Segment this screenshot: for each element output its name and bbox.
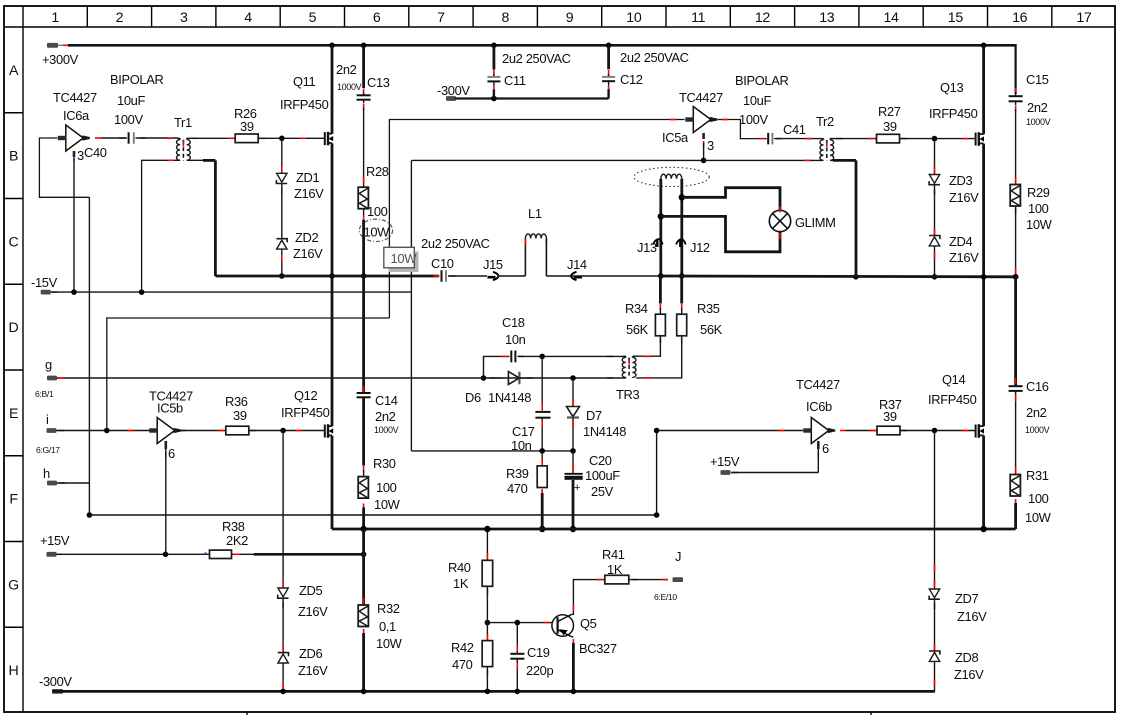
op-amp IC6a TC4427 labels xyxy=(53,90,97,123)
node R42/-300V rail xyxy=(485,689,491,695)
svg-text:-300V: -300V xyxy=(39,674,72,689)
svg-text:6:B/1: 6:B/1 xyxy=(35,389,54,399)
svg-text:10uF: 10uF xyxy=(743,93,771,108)
capacitor C20 100uF 25V xyxy=(565,451,583,529)
svg-text:ZD2: ZD2 xyxy=(295,230,318,245)
node Q14/529 bus xyxy=(980,526,986,532)
wire +15V line to R38 xyxy=(57,553,254,555)
node D7/C20 xyxy=(570,448,576,454)
diode D6 1N4148 xyxy=(489,372,533,385)
node -15V/IC6a pin3 xyxy=(71,289,77,295)
svg-text:IC5a: IC5a xyxy=(662,130,689,145)
node J13/GLIMM bottom xyxy=(658,213,664,219)
wire h-net vertical to IC6a/IC6b xyxy=(88,197,90,515)
zener diode ZD1 labels xyxy=(294,170,324,201)
svg-text:Q5: Q5 xyxy=(580,616,597,631)
svg-text:-300V: -300V xyxy=(437,83,470,98)
wire Q14 source to 529 bus xyxy=(982,436,985,529)
sense inductor xyxy=(661,174,682,179)
net i stub xyxy=(36,412,64,455)
node R29/276 bus xyxy=(1013,274,1019,280)
transistor Q14 labels xyxy=(928,372,977,407)
wire g line xyxy=(56,377,625,379)
resistor R28 100 10W xyxy=(358,187,368,209)
node ZD4/276 bus xyxy=(932,274,938,280)
capacitor C17 xyxy=(535,356,550,451)
resistor R39 labels xyxy=(506,466,529,496)
svg-text:Z16V: Z16V xyxy=(957,609,987,624)
svg-text:2: 2 xyxy=(116,10,124,26)
resistor R38 2K2 xyxy=(206,550,240,558)
resistor R30 100 10W xyxy=(358,477,368,499)
capacitor C17 labels xyxy=(511,424,535,453)
svg-text:100V: 100V xyxy=(114,112,143,127)
svg-text:3: 3 xyxy=(180,10,188,26)
node IC5a pin3 / -15V line xyxy=(701,158,707,164)
svg-text:h: h xyxy=(43,466,50,481)
transistor Q12 IRFP450 xyxy=(325,424,333,438)
svg-text:C12: C12 xyxy=(620,72,643,87)
wire C15 to R29 xyxy=(1015,109,1017,185)
transformer Tr2 label xyxy=(816,114,834,129)
wire GLIMM bottom branch xyxy=(661,216,780,251)
svg-text:6: 6 xyxy=(822,441,829,456)
net -300V stub (top) xyxy=(437,83,470,101)
wire Tr1 right winding bottom to bus xyxy=(187,160,216,276)
resistor R30 labels xyxy=(373,456,401,512)
resistor R27 labels xyxy=(878,104,901,134)
transistor Q5 labels xyxy=(579,616,617,656)
svg-text:10W: 10W xyxy=(1026,217,1053,232)
resistor R35 56K xyxy=(636,276,687,378)
wire C13 to R28 xyxy=(363,108,365,188)
net g stub xyxy=(35,357,57,399)
svg-text:470: 470 xyxy=(507,481,528,496)
wire TR3 top-left lead xyxy=(542,355,625,357)
wire C14 to R30 xyxy=(362,397,365,476)
resistor R31 labels xyxy=(1025,468,1052,525)
svg-text:4: 4 xyxy=(244,10,252,26)
transformer TR3 label xyxy=(616,387,639,402)
resistor R38 labels xyxy=(222,519,248,548)
svg-text:Z16V: Z16V xyxy=(949,190,979,205)
resistor R34 labels xyxy=(625,301,649,337)
lamp GLIMM xyxy=(769,207,790,240)
node C18/TR3 line xyxy=(539,354,545,360)
resistor R40 1K xyxy=(482,529,493,595)
node D6/D7 junction xyxy=(570,375,576,381)
svg-text:C17: C17 xyxy=(512,424,535,439)
wire 276 bus to C16 xyxy=(1014,277,1017,386)
svg-text:F: F xyxy=(9,492,18,508)
node -300V/C11 bottom xyxy=(491,96,497,102)
svg-text:ZD6: ZD6 xyxy=(299,646,322,661)
capacitor C14 xyxy=(357,393,371,397)
node C20/529 bus xyxy=(570,526,576,532)
node R27/ZD3 xyxy=(932,136,938,142)
svg-text:BC327: BC327 xyxy=(579,641,617,656)
svg-text:39: 39 xyxy=(240,119,254,134)
node J12/276 bus xyxy=(679,273,685,279)
wire 276 bus to C14 xyxy=(362,276,365,392)
svg-text:i: i xyxy=(46,412,49,427)
svg-text:C41: C41 xyxy=(783,122,806,137)
node +15V/IC5b pin6 xyxy=(163,552,169,558)
resistor R36 xyxy=(176,426,325,435)
zener diode ZD6 Z16V xyxy=(278,599,289,692)
wire +15V thick segment R38 to R30 bus xyxy=(254,553,364,556)
capacitor C18 xyxy=(484,351,543,379)
svg-text:A: A xyxy=(9,63,19,79)
node +300V/C11 xyxy=(491,43,497,49)
svg-text:J15: J15 xyxy=(483,257,503,272)
svg-text:g: g xyxy=(45,357,52,372)
capacitor C40 labels xyxy=(84,72,163,160)
resistor R41 1K xyxy=(597,575,668,584)
svg-text:100uF: 100uF xyxy=(585,468,620,483)
resistor R26 xyxy=(190,134,325,143)
wire -300V bottom rail xyxy=(52,690,935,693)
svg-text:C15: C15 xyxy=(1026,72,1049,87)
net +15V power stub (left) xyxy=(40,533,70,557)
svg-text:J12: J12 xyxy=(690,240,710,255)
svg-text:IRFP450: IRFP450 xyxy=(929,106,978,121)
label J13 with arrow xyxy=(637,239,663,255)
capacitor C41 labels xyxy=(735,73,806,137)
svg-text:1000V: 1000V xyxy=(374,425,399,435)
zener diode ZD4 Z16V xyxy=(929,185,940,277)
wire Q5 collector xyxy=(572,580,605,615)
wire i line xyxy=(57,430,152,432)
svg-text:R31: R31 xyxy=(1026,468,1049,483)
svg-text:2n2: 2n2 xyxy=(1027,100,1048,115)
wire C16 to R31 xyxy=(1015,391,1017,475)
svg-text:10W: 10W xyxy=(391,251,418,266)
svg-text:C: C xyxy=(9,234,19,250)
net +300V power stub xyxy=(42,43,79,67)
wire L1 to J13 node xyxy=(546,275,660,277)
svg-text:+15V: +15V xyxy=(40,533,70,548)
wire R30 to 529 bus xyxy=(363,504,365,530)
svg-text:10: 10 xyxy=(626,10,642,26)
svg-text:470: 470 xyxy=(452,657,473,672)
node +300V/Q11 drain xyxy=(329,43,335,49)
node J12/GLIMM top xyxy=(679,194,685,200)
svg-text:R34: R34 xyxy=(625,301,648,316)
wire Q5 base line xyxy=(487,622,552,624)
capacitor C12 labels xyxy=(620,50,689,87)
capacitor C19 labels xyxy=(526,645,553,678)
wire Q11 drain bus xyxy=(331,45,334,134)
node base/C19 xyxy=(515,620,521,626)
node Q5 emitter/-300V rail xyxy=(571,689,577,695)
wire Q11 source bus down to Q12 xyxy=(331,143,334,426)
op-amp IC6b xyxy=(803,418,846,444)
svg-text:15: 15 xyxy=(948,10,964,26)
inductor L1 label xyxy=(528,206,542,221)
svg-text:R38: R38 xyxy=(222,519,245,534)
svg-text:1000V: 1000V xyxy=(337,82,362,92)
wire R29 to 276 bus xyxy=(1015,206,1017,277)
svg-text:6: 6 xyxy=(373,10,381,26)
wire Tr2 right winding bottom thick xyxy=(833,160,856,276)
svg-text:J: J xyxy=(675,549,681,564)
svg-text:Tr1: Tr1 xyxy=(174,115,192,130)
svg-text:10uF: 10uF xyxy=(117,93,145,108)
resistor R31 100 10W xyxy=(1010,475,1020,497)
svg-text:100: 100 xyxy=(1028,201,1049,216)
wire 276 bus right section xyxy=(661,275,1016,279)
capacitor C20 labels xyxy=(574,453,620,499)
capacitor C10 xyxy=(434,270,488,282)
svg-text:IRFP450: IRFP450 xyxy=(280,97,329,112)
zener diode ZD7 Z16V xyxy=(929,431,940,610)
transformer Tr2 xyxy=(804,139,844,161)
capacitor C15 xyxy=(1009,88,1023,112)
svg-text:ZD5: ZD5 xyxy=(299,583,322,598)
resistor R32 0,1 10W xyxy=(358,598,368,635)
resistor R42 470 xyxy=(482,586,493,691)
svg-text:C16: C16 xyxy=(1026,379,1049,394)
svg-text:1000V: 1000V xyxy=(1025,425,1050,435)
node i/IC5a route xyxy=(104,428,110,434)
svg-text:L1: L1 xyxy=(528,206,542,221)
svg-text:10W: 10W xyxy=(1025,510,1052,525)
resistor R37 labels xyxy=(879,397,902,424)
net -15V power stub xyxy=(31,275,58,295)
svg-text:1000V: 1000V xyxy=(1026,117,1051,127)
node h route corner xyxy=(87,512,93,518)
transformer Tr1 xyxy=(167,138,198,161)
node R39/529 bus xyxy=(539,526,545,532)
wire i-net route to IC5a input xyxy=(107,120,685,431)
node Tr2 return/276 bus xyxy=(853,274,859,280)
svg-text:1K: 1K xyxy=(453,576,469,591)
transistor Q14 IRFP450 xyxy=(976,424,984,438)
capacitor C15 labels xyxy=(1026,72,1051,127)
svg-text:2n2: 2n2 xyxy=(375,409,396,424)
capacitor C12 xyxy=(602,45,615,98)
zener diode ZD4 labels xyxy=(949,234,979,265)
node R28 bus/276 bus xyxy=(361,273,367,279)
pin 6 of IC6b xyxy=(818,441,829,473)
svg-text:IC6b: IC6b xyxy=(806,399,832,414)
svg-text:16: 16 xyxy=(1012,10,1028,26)
label GLIMM xyxy=(795,215,836,230)
svg-text:R32: R32 xyxy=(377,601,400,616)
svg-text:2n2: 2n2 xyxy=(336,62,357,77)
svg-text:39: 39 xyxy=(883,119,897,134)
svg-text:10W: 10W xyxy=(364,225,391,240)
transformer Tr1 label xyxy=(174,115,192,130)
svg-text:6:E/10: 6:E/10 xyxy=(654,592,677,602)
node C18 branch/g line xyxy=(481,375,487,381)
wire IC6a input loop xyxy=(39,138,89,197)
svg-text:2u2 250VAC: 2u2 250VAC xyxy=(620,50,689,65)
zener diode ZD7 labels xyxy=(955,591,987,624)
zener diode ZD1 Z16V xyxy=(276,138,287,194)
svg-text:G: G xyxy=(8,577,19,593)
node R30/529 bus xyxy=(360,526,366,532)
capacitor C10 labels xyxy=(421,236,490,271)
svg-text:J14: J14 xyxy=(567,257,587,272)
wire Q5 emitter xyxy=(572,637,574,692)
svg-text:100: 100 xyxy=(376,480,397,495)
node R37/ZD7 xyxy=(932,428,938,434)
svg-text:BIPOLAR: BIPOLAR xyxy=(110,72,163,87)
svg-text:2u2 250VAC: 2u2 250VAC xyxy=(421,236,490,251)
resistor R26 labels xyxy=(234,106,257,134)
node R32/-300V rail xyxy=(361,689,367,695)
zener diode ZD6 labels xyxy=(298,646,328,678)
svg-text:56K: 56K xyxy=(700,322,723,337)
capacitor C11 labels xyxy=(502,51,571,88)
node R26/ZD1 xyxy=(279,136,285,142)
svg-text:C11: C11 xyxy=(504,73,526,88)
label 10W of R28 with dash-dot ellipse xyxy=(359,219,392,241)
zener diode ZD2 labels xyxy=(293,230,323,261)
svg-text:IC5b: IC5b xyxy=(157,401,183,416)
node IC6b input corner xyxy=(654,428,660,434)
svg-text:-15V: -15V xyxy=(31,275,58,290)
svg-text:B: B xyxy=(9,149,18,165)
node +15V/R30 bus xyxy=(361,552,367,558)
resistor R28 labels xyxy=(366,164,389,219)
wire +300V top rail xyxy=(68,44,1016,47)
wire R31 to 529 bus xyxy=(1015,499,1017,529)
svg-text:R29: R29 xyxy=(1027,185,1050,200)
net h stub xyxy=(43,466,65,485)
wire J13 lead xyxy=(659,179,662,276)
transistor Q11 IRFP450 xyxy=(325,132,333,146)
wire C10 to L1 xyxy=(498,275,525,277)
resistor R34 56K xyxy=(633,276,665,356)
op-amp IC5b TC4427 labels xyxy=(149,389,193,416)
op-amp IC5a xyxy=(670,107,717,133)
node ZD2/276 bus xyxy=(279,273,285,279)
svg-text:Q14: Q14 xyxy=(942,372,965,387)
resistor R36 labels xyxy=(225,394,248,423)
node Q13/276 bus xyxy=(981,274,987,280)
svg-text:C40: C40 xyxy=(84,145,107,160)
node R36/ZD5 branch xyxy=(280,428,286,434)
wire h-net riser to IC6b input xyxy=(656,431,658,516)
svg-text:+: + xyxy=(574,482,580,494)
diode D6 labels xyxy=(465,390,531,405)
resistor R32 labels xyxy=(376,601,403,651)
wire J12 lead xyxy=(680,179,683,276)
svg-text:TC4427: TC4427 xyxy=(679,90,723,105)
capacitor C13 labels xyxy=(336,62,390,92)
diode D7 labels xyxy=(583,408,626,439)
svg-text:R30: R30 xyxy=(373,456,396,471)
wire Q13 source bus xyxy=(982,144,985,427)
svg-text:10W: 10W xyxy=(376,636,403,651)
svg-text:C14: C14 xyxy=(375,393,398,408)
resistor R39 470 xyxy=(537,451,547,529)
node ZD6/-300V rail xyxy=(280,689,286,695)
svg-text:R36: R36 xyxy=(225,394,248,409)
transistor Q13 IRFP450 xyxy=(976,132,984,146)
svg-text:D7: D7 xyxy=(586,408,602,423)
svg-text:+300V: +300V xyxy=(42,52,79,67)
node h riser/515 xyxy=(654,512,660,518)
svg-text:Z16V: Z16V xyxy=(298,604,328,619)
svg-text:Q11: Q11 xyxy=(293,74,316,89)
net -300V power stub (bottom) xyxy=(39,674,72,694)
zener diode ZD2 Z16V xyxy=(276,184,287,276)
svg-text:IRFP450: IRFP450 xyxy=(928,392,977,407)
inductor L1 xyxy=(525,234,546,276)
wire Tr1 left winding bottom return xyxy=(142,160,181,292)
svg-text:R41: R41 xyxy=(602,547,625,562)
svg-text:Z16V: Z16V xyxy=(949,250,979,265)
svg-text:3: 3 xyxy=(707,138,714,153)
svg-text:Tr2: Tr2 xyxy=(816,114,834,129)
wire R28 to 276 bus xyxy=(363,209,365,276)
svg-text:100V: 100V xyxy=(739,112,768,127)
svg-text:E: E xyxy=(9,406,18,422)
resistor R29 100 10W xyxy=(1010,185,1020,207)
svg-text:2K2: 2K2 xyxy=(226,533,248,548)
svg-text:C19: C19 xyxy=(527,645,550,660)
svg-text:C13: C13 xyxy=(367,75,390,90)
wire -15V rail xyxy=(51,291,412,293)
wire h line xyxy=(57,482,89,484)
svg-text:39: 39 xyxy=(883,409,897,424)
resistor R37 xyxy=(846,426,976,435)
svg-text:ZD1: ZD1 xyxy=(296,170,319,185)
node +300V/C13 xyxy=(361,43,367,49)
svg-text:ZD7: ZD7 xyxy=(955,591,978,606)
zener diode ZD5 labels xyxy=(298,583,328,619)
wire IC6b input line xyxy=(657,430,804,432)
svg-text:1N4148: 1N4148 xyxy=(583,424,626,439)
net +15V stub (right) xyxy=(710,454,740,475)
node R40/R42 junction xyxy=(485,620,491,626)
svg-text:Z16V: Z16V xyxy=(954,667,984,682)
net J stub xyxy=(654,549,683,602)
svg-text:ZD8: ZD8 xyxy=(955,650,978,665)
transistor Q5 BC327 xyxy=(552,614,574,637)
svg-text:D: D xyxy=(9,320,19,336)
resistor R27 xyxy=(830,134,975,143)
svg-text:TC4427: TC4427 xyxy=(53,90,97,105)
svg-text:39: 39 xyxy=(233,408,247,423)
svg-text:10W: 10W xyxy=(374,497,401,512)
resistor R40 labels xyxy=(448,560,471,591)
svg-text:25V: 25V xyxy=(591,484,614,499)
svg-text:GLIMM: GLIMM xyxy=(795,215,836,230)
capacitor C19 220p xyxy=(510,623,524,692)
node Q11 source/276 bus xyxy=(329,273,335,279)
svg-text:C18: C18 xyxy=(502,315,525,330)
svg-text:C10: C10 xyxy=(431,256,454,271)
svg-text:R27: R27 xyxy=(878,104,901,119)
svg-text:6:G/17: 6:G/17 xyxy=(36,445,60,455)
svg-text:R40: R40 xyxy=(448,560,471,575)
wire +300V rail corner to C15 xyxy=(1014,44,1016,94)
node 276 bus / C16 branch xyxy=(1013,274,1019,280)
svg-text:17: 17 xyxy=(1076,10,1092,26)
node C17/R39 xyxy=(539,448,545,454)
resistor R29 labels xyxy=(1026,185,1053,232)
node -15V/Tr1 return xyxy=(139,289,145,295)
wire -15V reference line to Tr2 xyxy=(411,160,820,292)
svg-text:Z16V: Z16V xyxy=(294,186,324,201)
transistor Q13 labels xyxy=(929,80,978,121)
svg-text:R42: R42 xyxy=(451,640,474,655)
